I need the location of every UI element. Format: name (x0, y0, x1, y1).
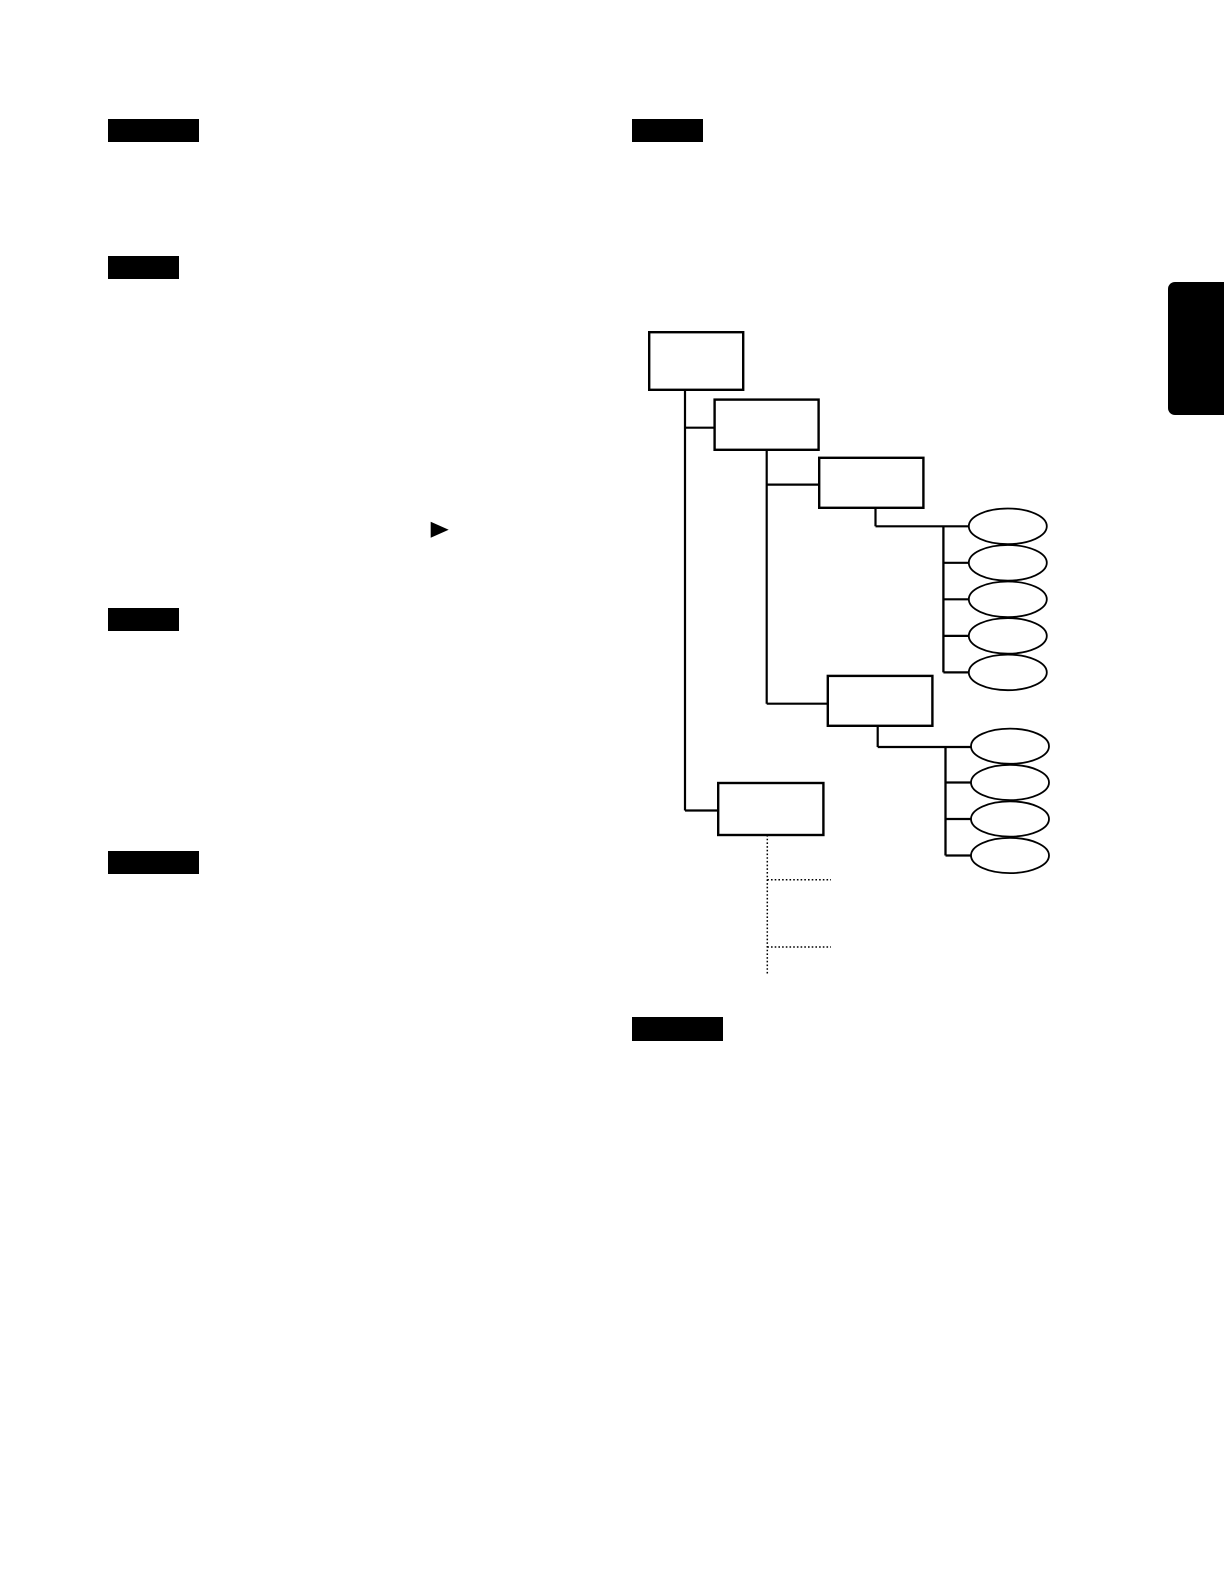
wire: dotted vertical from B5 (766, 835, 768, 974)
box B1 (tree root) (649, 332, 743, 390)
redacted heading bar 1 (top left) (108, 119, 200, 142)
ellipse E5 (969, 655, 1047, 691)
redacted heading bar 2 (top middle) (632, 119, 704, 143)
wire: stub to ellipse E9 (946, 854, 972, 856)
wire: group 1 trunk (942, 526, 944, 672)
wire: dotted branch 2 (767, 946, 831, 948)
box B2 (level 2) (715, 400, 819, 450)
box B4 (level 3, second) (828, 676, 933, 726)
wire: vertical from B2 down to B4 branch (766, 450, 768, 704)
wire: stub to ellipse E2 (943, 562, 969, 564)
wire: group 2 trunk (944, 747, 946, 856)
wire: B3 to ellipse group 1 (876, 525, 969, 527)
ellipse E6 (971, 729, 1049, 764)
wire: stub to ellipse E5 (943, 671, 969, 673)
ellipse E9 (971, 838, 1049, 873)
box B3 (level 3) (819, 458, 923, 508)
wire: stub to ellipse E8 (946, 818, 972, 820)
redacted heading bar 6 (below diagram) (632, 1017, 723, 1041)
wire: B4 to ellipse group 2 (878, 746, 971, 748)
ellipse E1 (969, 509, 1047, 545)
wire: branch B1 to B2 (685, 427, 715, 429)
wire: stub to ellipse E4 (943, 635, 969, 637)
ellipse E4 (969, 618, 1047, 654)
wire: branch B2 to B4 (767, 703, 828, 705)
box B5 (level 2, second) (718, 783, 823, 835)
ellipse E2 (969, 545, 1047, 581)
redacted heading bar 4 (left column) (108, 608, 180, 631)
wire: drop from B3 bottom (874, 508, 876, 527)
redacted heading bar 5 (left column) (108, 851, 200, 874)
right-pointing marker triangle (429, 520, 451, 540)
black page-edge index tab (1168, 282, 1224, 415)
wire: branch to B5 (685, 809, 718, 811)
ellipse E3 (969, 582, 1047, 618)
wire: dotted branch 1 (767, 879, 831, 881)
wire: long vertical from B1 down to B5 branch (684, 390, 686, 811)
wire: stub to ellipse E7 (946, 781, 972, 783)
wire: branch B2 to B3 (767, 484, 820, 486)
wire: stub to ellipse E3 (943, 598, 969, 600)
redacted heading bar 3 (left column) (108, 256, 180, 279)
ellipse E8 (971, 801, 1049, 836)
ellipse E7 (971, 765, 1049, 800)
wire: drop from B4 bottom (877, 726, 879, 747)
